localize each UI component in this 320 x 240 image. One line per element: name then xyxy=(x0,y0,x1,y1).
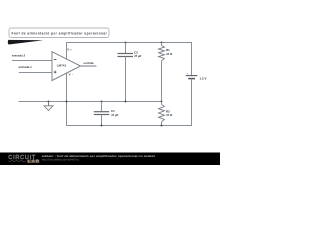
svg-text:adrianr : font de alimentació: adrianr : font de alimentació per amplif… xyxy=(42,154,155,158)
wire V- pin down to bottom rail xyxy=(66,72,68,126)
junction C2 top xyxy=(125,42,127,44)
svg-text:V+: V+ xyxy=(67,48,72,52)
svg-text:47 Ω: 47 Ω xyxy=(166,52,173,56)
wire bottom rail xyxy=(66,125,192,127)
svg-text:47 Ω: 47 Ω xyxy=(166,113,173,117)
junction V- wire crossing xyxy=(66,101,68,103)
op-amp U1 LM741 xyxy=(52,52,81,81)
svg-text:+: + xyxy=(186,72,188,75)
wire output sortida xyxy=(81,65,97,67)
title box xyxy=(9,28,109,38)
ground symbol xyxy=(44,102,53,111)
svg-text:47 µF: 47 µF xyxy=(111,113,119,117)
footer logo CIRCUIT LAB xyxy=(8,155,40,164)
junction R2 top xyxy=(161,101,163,103)
junction C1 bottom xyxy=(101,125,103,127)
footer bar xyxy=(0,153,220,166)
capacitor C1 xyxy=(94,102,119,127)
svg-text:http://circuitlab.com/c64v7nc: http://circuitlab.com/c64v7nc xyxy=(42,158,80,162)
resistor R1 xyxy=(159,43,173,102)
swoosh annotation xyxy=(8,40,44,45)
svg-text:Font de alimentació per amplif: Font de alimentació per amplificador ope… xyxy=(12,32,107,36)
junction R1 top xyxy=(161,42,163,44)
battery V1 xyxy=(186,42,207,126)
junction C1 top xyxy=(101,101,103,103)
wire top rail xyxy=(66,42,192,44)
svg-text:LAB: LAB xyxy=(28,159,40,164)
wire entrada 2 to inverting input xyxy=(12,60,52,62)
resistor R2 xyxy=(159,102,173,127)
wire middle rail xyxy=(19,101,162,103)
wire entrada 1 to non-inverting input xyxy=(19,72,52,74)
svg-text:entrada 2: entrada 2 xyxy=(12,54,26,58)
svg-text:LM741: LM741 xyxy=(57,64,67,68)
capacitor C2 xyxy=(118,43,142,102)
svg-text:47 µF: 47 µF xyxy=(134,54,142,58)
svg-text:entrada 1: entrada 1 xyxy=(19,65,33,69)
junction R2 bottom xyxy=(161,125,163,127)
wire V+ pin up to top rail xyxy=(66,42,68,60)
svg-text:1.2 V: 1.2 V xyxy=(200,77,207,81)
svg-text:V-: V- xyxy=(69,72,73,76)
junction ground xyxy=(48,101,50,103)
svg-text:sortida: sortida xyxy=(83,61,93,65)
junction C2 bottom xyxy=(125,101,127,103)
